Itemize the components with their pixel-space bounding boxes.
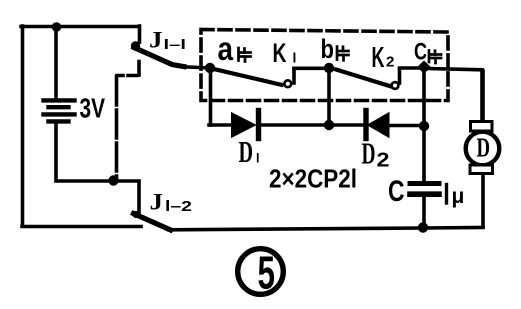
label D1 (239, 134, 260, 169)
label D2 (362, 136, 390, 172)
label pian after b (337, 47, 349, 61)
svg-text:J: J (149, 28, 163, 54)
wire blade to node a (183, 67, 206, 68)
capacitor C plates (410, 181, 439, 186)
label pian after c (429, 51, 441, 64)
battery B 3V (44, 100, 75, 121)
wire J1-1 throw2 contact tick (137, 62, 141, 76)
node c-diode junction (419, 121, 429, 131)
svg-text:D: D (477, 133, 491, 163)
label K2 (372, 42, 395, 74)
wire mechanical link dashed (117, 74, 137, 78)
svg-text:l: l (293, 50, 297, 66)
svg-text:2×2CP2l: 2×2CP2l (269, 164, 357, 194)
svg-text:l: l (256, 152, 259, 166)
label J1-2 (150, 190, 193, 216)
wire K1 to node b (294, 67, 325, 71)
wire K2 to node c (400, 66, 419, 70)
svg-text:l–2: l–2 (165, 199, 192, 215)
label K1 (273, 38, 297, 68)
figure number 5 (238, 249, 284, 295)
svg-text:l–l: l–l (164, 36, 187, 52)
wire battery top lead (54, 27, 58, 98)
wire diode row left (209, 123, 233, 127)
wire node a down (209, 70, 213, 125)
svg-text:μ: μ (452, 185, 465, 208)
node b-diode junction (324, 120, 334, 130)
wire node b down (327, 70, 331, 123)
wire top rail (21, 25, 139, 29)
node a (205, 63, 215, 73)
svg-text:a: a (218, 30, 234, 67)
switch K1 blade (216, 70, 282, 85)
wire battery bottom lead (56, 124, 112, 182)
wire node c down to capacitor (422, 69, 426, 180)
diode D1 (232, 114, 255, 137)
label J1-1 (149, 28, 186, 54)
switch J1-1 blade (134, 48, 184, 67)
node J1-1 pivot (131, 41, 140, 50)
label pian after a (239, 48, 251, 62)
switch J1-2 blade (134, 214, 171, 231)
contact circle K1 (284, 80, 291, 87)
svg-text:K: K (273, 38, 287, 68)
contact circle K2 (392, 82, 399, 89)
switch K2 blade (336, 70, 391, 87)
wire c to motor corner (428, 69, 482, 122)
svg-text:2: 2 (386, 54, 394, 71)
node capacitor-rail junction (418, 222, 428, 232)
motor top lead (481, 71, 485, 121)
wire left rail (21, 26, 25, 225)
svg-text:D: D (239, 134, 254, 169)
svg-text:J: J (150, 190, 164, 216)
svg-text:D: D (362, 136, 376, 171)
svg-text:2: 2 (377, 150, 390, 172)
dashed contact box (201, 30, 448, 101)
contact tick K1 (292, 69, 296, 83)
wire J1-1 feed (138, 26, 142, 42)
wire to J1-2 pivot (114, 181, 140, 212)
node c diamond (418, 62, 430, 73)
node b (324, 63, 334, 73)
label 1u value (445, 185, 448, 204)
wire diode row mid (260, 123, 364, 127)
node battery-top junction (52, 22, 62, 32)
motor bottom lead (481, 174, 485, 227)
svg-text:5: 5 (258, 247, 276, 299)
wire capacitor down (422, 197, 426, 227)
wire bottom rail right (169, 228, 483, 230)
node bottom junction (108, 175, 118, 185)
svg-text:C: C (414, 39, 427, 66)
wire bottom rail left (22, 225, 141, 229)
contact tick K2 (398, 69, 402, 83)
svg-text:K: K (372, 42, 385, 74)
svg-text:3V: 3V (80, 93, 106, 124)
svg-text:b: b (321, 34, 335, 64)
svg-text:C: C (388, 175, 405, 208)
motor D (466, 132, 500, 166)
wire diode row right (388, 124, 424, 128)
diode D2 (363, 111, 368, 139)
